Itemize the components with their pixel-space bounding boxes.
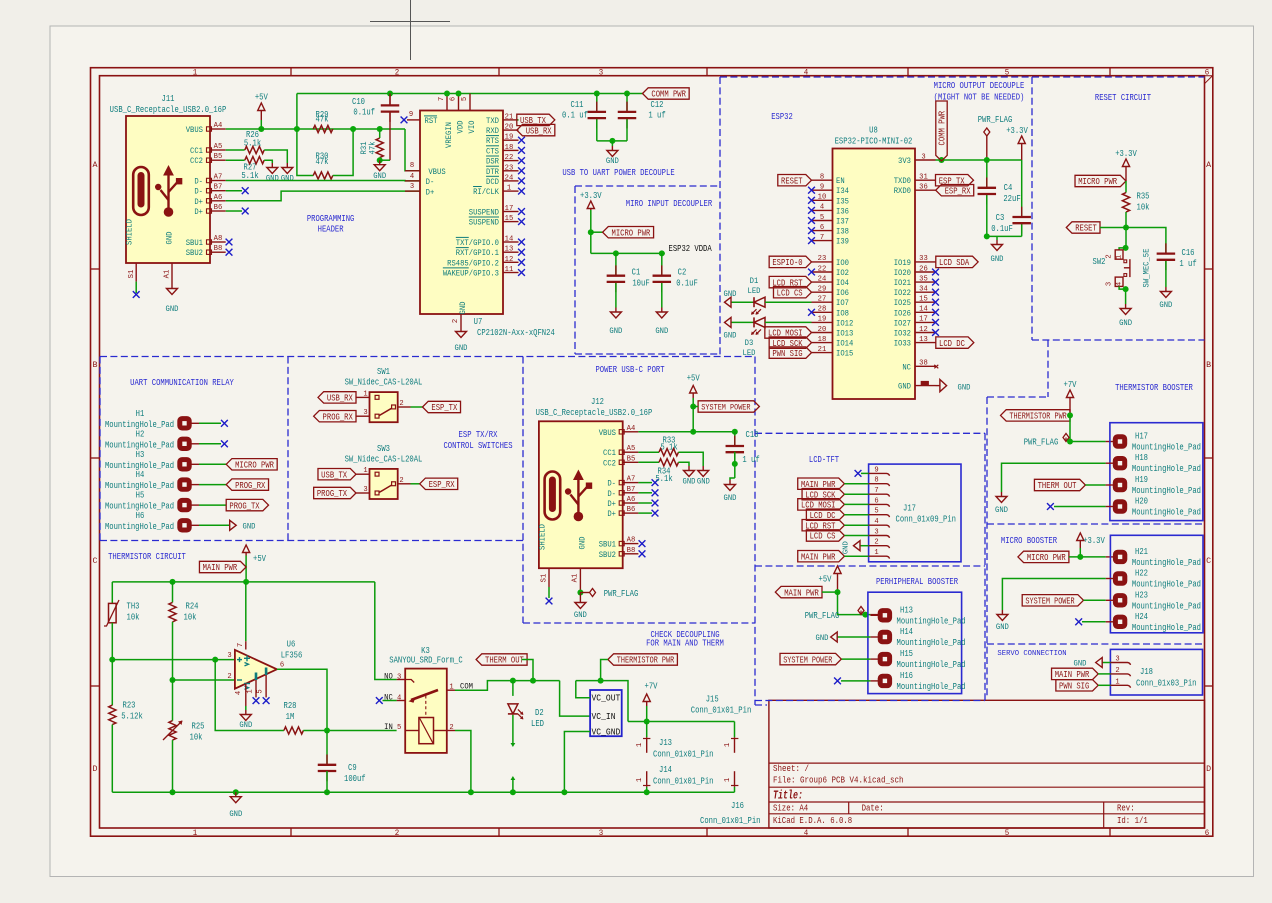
svg-text:1: 1 xyxy=(507,185,512,193)
svg-text:3V3: 3V3 xyxy=(898,156,911,166)
svg-text:USB_TX: USB_TX xyxy=(321,470,347,480)
svg-text:IO0: IO0 xyxy=(836,258,849,268)
svg-text:D-: D- xyxy=(194,187,203,197)
svg-text:IO4: IO4 xyxy=(836,278,849,288)
svg-text:36: 36 xyxy=(919,184,928,192)
svg-text:5: 5 xyxy=(397,724,402,732)
svg-text:SYSTEM POWER: SYSTEM POWER xyxy=(701,403,750,413)
svg-text:B7: B7 xyxy=(214,184,223,192)
svg-text:RXT/GPIO.1: RXT/GPIO.1 xyxy=(456,248,499,258)
svg-text:B: B xyxy=(93,360,98,370)
svg-text:R28: R28 xyxy=(284,701,297,711)
IC U7 CP2102N xyxy=(420,111,503,315)
svg-text:4: 4 xyxy=(804,828,809,838)
svg-text:21: 21 xyxy=(505,113,514,121)
svg-text:VC_IN: VC_IN xyxy=(592,712,616,722)
U8 pin RXD0 xyxy=(915,189,936,191)
svg-text:10k: 10k xyxy=(190,733,203,743)
global label ESP_RX from SW3 xyxy=(411,483,420,485)
svg-text:3: 3 xyxy=(599,68,604,78)
svg-text:H15: H15 xyxy=(900,649,913,659)
svg-text:I37: I37 xyxy=(836,217,849,227)
svg-text:24: 24 xyxy=(818,275,827,283)
svg-text:DSR: DSR xyxy=(486,157,499,167)
global label SYSTEM POWER booster xyxy=(1022,595,1083,606)
svg-text:GND: GND xyxy=(239,720,252,730)
K3 pin COM 1 xyxy=(447,689,455,691)
ground under C1 xyxy=(615,308,617,313)
svg-text:SW_Nidec_CAS-L20AL: SW_Nidec_CAS-L20AL xyxy=(345,454,423,464)
svg-text:31: 31 xyxy=(919,174,928,182)
svg-text:1: 1 xyxy=(449,684,454,692)
power +3.3V micro booster xyxy=(1079,540,1081,548)
svg-text:PWR_FLAG: PWR_FLAG xyxy=(805,611,840,621)
svg-text:7: 7 xyxy=(237,643,245,647)
connector J18 Conn_01x03_Pin xyxy=(1110,649,1202,695)
global label LCD MOSI xyxy=(765,327,812,338)
connector box H21-H24 xyxy=(1110,535,1203,633)
svg-text:GND: GND xyxy=(995,505,1008,515)
mounting hole H13 xyxy=(878,609,891,622)
K3 pin NC 4 xyxy=(397,700,406,702)
power symbol PWR_FLAG J12 xyxy=(580,592,589,594)
svg-text:GND: GND xyxy=(724,289,737,299)
global label LCD RST xyxy=(769,276,811,287)
svg-text:B8: B8 xyxy=(214,245,223,253)
svg-text:23: 23 xyxy=(818,255,827,263)
svg-text:GND: GND xyxy=(266,174,279,184)
svg-text:A6: A6 xyxy=(214,194,223,202)
svg-text:GND: GND xyxy=(281,174,294,184)
svg-text:1: 1 xyxy=(636,777,644,782)
svg-text:2: 2 xyxy=(395,828,400,838)
svg-text:MICRO PWR: MICRO PWR xyxy=(1027,553,1066,563)
svg-text:14: 14 xyxy=(919,306,928,314)
svg-text:KiCad E.D.A. 6.0.8: KiCad E.D.A. 6.0.8 xyxy=(773,816,852,826)
svg-text:IO21: IO21 xyxy=(894,278,911,288)
svg-text:CC1: CC1 xyxy=(190,146,203,156)
svg-text:R24: R24 xyxy=(186,602,199,612)
svg-text:VC_OUT: VC_OUT xyxy=(592,694,621,704)
K3 coil xyxy=(419,718,434,744)
svg-text:H18: H18 xyxy=(1135,453,1148,463)
svg-text:A4: A4 xyxy=(627,425,636,433)
svg-text:RESET: RESET xyxy=(1075,224,1097,234)
svg-text:7: 7 xyxy=(438,97,446,101)
svg-text:17: 17 xyxy=(919,316,928,324)
wire D+ A6 to U7 xyxy=(226,191,420,201)
J11 bottom pins S1 A1 xyxy=(135,263,137,282)
svg-text:A: A xyxy=(1206,160,1212,170)
svg-text:47k: 47k xyxy=(316,157,329,167)
svg-text:MAIN PWR: MAIN PWR xyxy=(784,588,819,598)
svg-text:IO13: IO13 xyxy=(836,329,853,339)
svg-text:4: 4 xyxy=(804,68,809,78)
svg-text:NC: NC xyxy=(902,362,911,372)
ground at rail xyxy=(235,792,237,797)
svg-text:RI/CLK: RI/CLK xyxy=(473,187,500,197)
U8 pin GND xyxy=(915,385,936,387)
svg-text:6: 6 xyxy=(1205,828,1210,838)
wire VBUS to top rail xyxy=(296,94,298,130)
global label MAIN PWR therm xyxy=(199,561,246,572)
svg-text:PWR_FLAG: PWR_FLAG xyxy=(1024,438,1059,448)
svg-text:IN: IN xyxy=(384,722,393,732)
svg-text:Id: 1/1: Id: 1/1 xyxy=(1117,816,1148,826)
svg-text:RTS: RTS xyxy=(486,136,499,146)
svg-text:THERM OUT: THERM OUT xyxy=(485,656,524,666)
svg-text:MountingHole_Pad: MountingHole_Pad xyxy=(105,440,174,450)
wire THERMISTOR PWR to VC_OUT xyxy=(601,660,608,681)
U8 pin I36 xyxy=(812,209,833,211)
mounting hole H24 xyxy=(1113,615,1126,628)
global label COMM PWR xyxy=(643,88,690,99)
svg-text:J13: J13 xyxy=(659,738,672,748)
global label MICRO PWR reset xyxy=(1075,175,1126,186)
svg-text:GND: GND xyxy=(455,343,468,353)
ground left of H18 xyxy=(1001,492,1003,497)
svg-text:H4: H4 xyxy=(136,470,145,480)
svg-text:PROGRAMMING: PROGRAMMING xyxy=(307,213,355,224)
svg-text:LCD CS: LCD CS xyxy=(777,288,803,298)
svg-text:GND: GND xyxy=(724,493,737,503)
mounting hole H15 xyxy=(878,652,891,665)
svg-text:A4: A4 xyxy=(214,122,223,130)
svg-text:USB_C_Receptacle_USB2.0_16P: USB_C_Receptacle_USB2.0_16P xyxy=(110,105,227,115)
svg-text:5: 5 xyxy=(1005,828,1010,838)
svg-text:TH3: TH3 xyxy=(127,602,140,612)
svg-text:D-: D- xyxy=(607,489,616,499)
wire +7V net to J15 xyxy=(628,721,735,723)
svg-text:SBU1: SBU1 xyxy=(186,238,203,248)
svg-text:C4: C4 xyxy=(1004,183,1013,193)
svg-text:CC2: CC2 xyxy=(190,156,203,166)
power +5V therm circuit xyxy=(245,552,247,556)
svg-text:H20: H20 xyxy=(1135,497,1148,507)
svg-text:MountingHole_Pad: MountingHole_Pad xyxy=(1132,580,1201,590)
svg-text:C3: C3 xyxy=(996,213,1005,223)
svg-text:1: 1 xyxy=(193,828,198,838)
svg-text:D-: D- xyxy=(194,177,203,187)
U8 pin I38 xyxy=(812,230,833,232)
svg-text:RESET CIRCUIT: RESET CIRCUIT xyxy=(1095,92,1151,103)
svg-text:D+: D+ xyxy=(607,509,616,519)
svg-text:TXD: TXD xyxy=(486,116,499,126)
U8 pin IO32 xyxy=(915,332,936,334)
svg-text:D3: D3 xyxy=(745,338,754,348)
svg-text:1: 1 xyxy=(724,777,732,782)
ground under C13 xyxy=(729,480,731,485)
ground below R31 xyxy=(379,160,381,165)
power symbol PWR_FLAG therm xyxy=(1063,434,1069,442)
svg-text:CTS: CTS xyxy=(486,146,499,156)
connector box H17-H20 xyxy=(1110,423,1203,521)
wire D- A7 to U7 xyxy=(226,180,420,182)
svg-text:Conn_01x03_Pin: Conn_01x03_Pin xyxy=(1136,679,1196,689)
svg-text:2: 2 xyxy=(1105,254,1113,258)
U7 pin WAKEUP/GPIO.3 xyxy=(503,272,519,274)
wire VC_GND to rail xyxy=(564,732,590,793)
svg-text:15: 15 xyxy=(505,215,514,223)
svg-text:C9: C9 xyxy=(348,763,357,773)
wire minus input xyxy=(173,679,235,681)
svg-text:GND: GND xyxy=(996,622,1009,632)
svg-text:J15: J15 xyxy=(706,695,719,705)
global label MAIN PWR periph xyxy=(775,586,822,597)
svg-text:B5: B5 xyxy=(627,455,636,463)
svg-text:100uf: 100uf xyxy=(344,774,366,784)
global label LCD SCK xyxy=(769,337,811,348)
U8 pin IO20 xyxy=(915,271,936,273)
svg-text:Sheet: /: Sheet: / xyxy=(773,764,809,774)
svg-text:19: 19 xyxy=(818,316,827,324)
svg-text:27: 27 xyxy=(818,296,827,304)
svg-text:MICRO PWR: MICRO PWR xyxy=(235,461,274,471)
svg-text:+5V: +5V xyxy=(255,93,268,103)
svg-text:0.1uF: 0.1uF xyxy=(676,279,698,289)
svg-text:IO12: IO12 xyxy=(836,318,853,328)
svg-text:D+: D+ xyxy=(607,499,616,509)
svg-text:SW2: SW2 xyxy=(1093,257,1106,267)
svg-text:PWR_FLAG: PWR_FLAG xyxy=(604,589,639,599)
svg-text:IO14: IO14 xyxy=(836,339,853,349)
svg-text:5.1k: 5.1k xyxy=(655,474,672,484)
wire COM net xyxy=(455,681,560,691)
U8 pin IO25 xyxy=(915,301,936,303)
U7 bottom pin GND xyxy=(460,314,462,327)
svg-text:A1: A1 xyxy=(572,573,580,582)
ground under C2 xyxy=(661,308,663,313)
power +3.3V reset xyxy=(1125,166,1127,181)
U8 pin IO2 xyxy=(812,271,833,273)
U8 pin IO21 xyxy=(915,281,936,283)
svg-text:MountingHole_Pad: MountingHole_Pad xyxy=(1132,443,1201,453)
svg-text:USB_RX: USB_RX xyxy=(526,126,552,136)
svg-text:D: D xyxy=(1206,764,1211,774)
U8 pin IO0 xyxy=(812,261,833,263)
svg-text:USB TO UART POWER DECOUPLE: USB TO UART POWER DECOUPLE xyxy=(562,167,675,178)
global label LCD DC xyxy=(936,337,974,348)
svg-text:38: 38 xyxy=(919,360,928,368)
svg-text:1: 1 xyxy=(363,467,368,475)
svg-text:H6: H6 xyxy=(136,511,145,521)
U8 pin 3V3 xyxy=(915,159,936,161)
U7 top pins 7 6 5 xyxy=(446,94,448,111)
svg-text:24: 24 xyxy=(505,174,514,182)
svg-text:SW_MEC_5E: SW_MEC_5E xyxy=(1142,249,1152,288)
svg-text:S1: S1 xyxy=(541,573,549,582)
svg-text:A6: A6 xyxy=(627,496,636,504)
svg-text:GND: GND xyxy=(609,326,622,336)
svg-text:1: 1 xyxy=(247,689,255,694)
U8 pin IO4 xyxy=(812,281,833,283)
svg-text:H19: H19 xyxy=(1135,475,1148,485)
mounting hole H18 xyxy=(1113,457,1126,470)
svg-text:C13: C13 xyxy=(746,430,759,440)
K3 armature xyxy=(411,690,438,700)
svg-text:C10: C10 xyxy=(352,97,365,107)
svg-text:Rev:: Rev: xyxy=(1117,804,1135,814)
svg-text:GND: GND xyxy=(958,383,971,393)
svg-text:34: 34 xyxy=(919,286,928,294)
svg-text:I34: I34 xyxy=(836,186,849,196)
svg-text:D-: D- xyxy=(607,479,616,489)
global label USB_RX xyxy=(517,124,555,135)
svg-text:23: 23 xyxy=(505,164,514,172)
svg-text:B8: B8 xyxy=(627,547,636,555)
svg-text:SW1: SW1 xyxy=(377,367,390,377)
svg-text:B6: B6 xyxy=(627,506,636,514)
svg-text:IO26: IO26 xyxy=(894,308,911,318)
svg-text:PWN SIG: PWN SIG xyxy=(772,349,802,359)
U7 pin RI/CLK xyxy=(503,190,519,192)
svg-text:WAKEUP/GPIO.3: WAKEUP/GPIO.3 xyxy=(443,269,499,279)
svg-text:B: B xyxy=(1206,360,1211,370)
no-connect H20 xyxy=(1054,506,1106,508)
svg-text:MIRO INPUT DECOUPLER: MIRO INPUT DECOUPLER xyxy=(626,198,713,209)
svg-text:SERVO CONNECTION: SERVO CONNECTION xyxy=(997,650,1066,658)
svg-text:LCD SDA: LCD SDA xyxy=(939,258,970,268)
svg-text:Size: A4: Size: A4 xyxy=(773,804,808,814)
svg-text:ESP_RX: ESP_RX xyxy=(945,186,971,196)
svg-text:IO32: IO32 xyxy=(894,329,911,339)
svg-text:LED: LED xyxy=(531,719,544,729)
svg-text:I39: I39 xyxy=(836,237,849,247)
U8 pin IO22 xyxy=(915,291,936,293)
svg-text:3: 3 xyxy=(1105,282,1113,286)
mounting hole H19 xyxy=(1113,478,1126,491)
mounting hole H16 xyxy=(878,674,891,687)
svg-text:MountingHole_Pad: MountingHole_Pad xyxy=(105,522,174,532)
U7 pin SUSPEND xyxy=(503,221,519,223)
svg-text:PWN SIG: PWN SIG xyxy=(1059,682,1089,692)
svg-text:18: 18 xyxy=(818,336,827,344)
svg-text:1: 1 xyxy=(363,390,368,398)
svg-text:5: 5 xyxy=(1005,68,1010,78)
wire caps to gnd xyxy=(597,140,627,142)
svg-text:ESP32-PICO-MINI-02: ESP32-PICO-MINI-02 xyxy=(835,137,913,147)
svg-text:IO19: IO19 xyxy=(894,258,911,268)
svg-text:USB_C_Receptacle_USB2.0_16P: USB_C_Receptacle_USB2.0_16P xyxy=(536,408,653,418)
svg-text:GND: GND xyxy=(243,521,256,531)
svg-text:3: 3 xyxy=(363,486,368,494)
svg-text:MICRO OUTPUT DECOUPLE: MICRO OUTPUT DECOUPLE xyxy=(934,80,1025,91)
ground at J11 A1 xyxy=(171,284,173,289)
svg-text:VBUS: VBUS xyxy=(599,428,616,438)
svg-text:CC2: CC2 xyxy=(603,458,616,468)
svg-text:J14: J14 xyxy=(659,765,672,775)
svg-text:D+: D+ xyxy=(194,207,203,217)
vertical global label COMM PWR xyxy=(939,157,945,163)
svg-text:MountingHole_Pad: MountingHole_Pad xyxy=(1132,486,1201,496)
svg-text:LED: LED xyxy=(748,286,761,296)
svg-text:3: 3 xyxy=(921,153,926,161)
no-connect J12 D-/D+/SBU xyxy=(638,492,652,494)
U8 pin TXD0 xyxy=(915,179,936,181)
svg-text:15: 15 xyxy=(919,296,928,304)
svg-text:H21: H21 xyxy=(1135,547,1148,557)
svg-text:12: 12 xyxy=(505,256,514,264)
svg-text:U7: U7 xyxy=(474,317,483,327)
svg-text:LCD DC: LCD DC xyxy=(939,339,965,349)
svg-text:+3.3V: +3.3V xyxy=(1006,126,1028,136)
U8 pin IO15 xyxy=(812,352,833,354)
U7 pin DSR xyxy=(503,160,519,162)
svg-text:J18: J18 xyxy=(1140,667,1153,677)
svg-text:DTR: DTR xyxy=(486,167,499,177)
wire plus input xyxy=(112,659,235,661)
grid origin crosshair xyxy=(410,0,412,60)
svg-text:PROG_RX: PROG_RX xyxy=(235,481,266,491)
global label PROG_RX to SW1 xyxy=(314,411,356,422)
power +7V therm xyxy=(1069,397,1071,415)
U8 pin IO13 xyxy=(812,332,833,334)
global label ESPIO-0 xyxy=(769,256,811,267)
svg-text:10k: 10k xyxy=(1137,203,1150,213)
wire VBUS down to U7 xyxy=(405,129,420,171)
svg-text:4: 4 xyxy=(410,173,415,181)
svg-text:USB_RX: USB_RX xyxy=(327,394,353,404)
svg-text:GND: GND xyxy=(574,610,587,620)
svg-text:3: 3 xyxy=(227,652,232,660)
svg-text:Conn_01x01_Pin: Conn_01x01_Pin xyxy=(700,816,760,826)
svg-text:29: 29 xyxy=(818,286,827,294)
svg-text:PERHIPHERAL BOOSTER: PERHIPHERAL BOOSTER xyxy=(876,576,958,587)
svg-text:9: 9 xyxy=(409,111,413,119)
svg-text:H2: H2 xyxy=(136,429,145,439)
svg-text:SUSPEND: SUSPEND xyxy=(469,218,499,228)
svg-text:20: 20 xyxy=(505,124,514,132)
svg-text:5.1k: 5.1k xyxy=(241,171,258,181)
svg-text:D+: D+ xyxy=(426,187,435,197)
svg-text:2: 2 xyxy=(399,477,403,485)
svg-text:20: 20 xyxy=(818,326,827,334)
svg-text:D-: D- xyxy=(426,177,435,187)
svg-text:PROG_RX: PROG_RX xyxy=(323,412,354,422)
svg-text:3: 3 xyxy=(410,183,415,191)
svg-text:4: 4 xyxy=(1116,282,1124,286)
U7 pin RS485/GPIO.2 xyxy=(503,261,519,263)
svg-text:IO25: IO25 xyxy=(894,298,911,308)
no-connect H24 xyxy=(1082,621,1106,623)
U8 pin IO27 xyxy=(915,321,936,323)
global label USB_TX to SW3 xyxy=(318,469,356,480)
svg-text:4: 4 xyxy=(397,694,402,702)
svg-text:0.1uf: 0.1uf xyxy=(353,108,375,118)
global label THERMISTOR PWR xyxy=(1001,410,1071,421)
no-connect B7 xyxy=(226,190,242,192)
svg-text:C: C xyxy=(93,556,98,566)
svg-text:I36: I36 xyxy=(836,206,849,216)
svg-text:Title:: Title: xyxy=(773,790,803,803)
U7 pin DTR xyxy=(503,170,519,172)
svg-text:MountingHole_Pad: MountingHole_Pad xyxy=(1132,558,1201,568)
svg-text:SYSTEM POWER: SYSTEM POWER xyxy=(1025,597,1075,607)
U7 pin RXT/GPIO.1 xyxy=(503,251,519,253)
bottom gnd rail xyxy=(112,791,734,793)
svg-text:THERMISTOR CIRCUIT: THERMISTOR CIRCUIT xyxy=(108,551,186,562)
svg-text:A1: A1 xyxy=(164,269,172,278)
U8 pin IO19 xyxy=(915,261,936,263)
svg-text:Conn_01x09_Pin: Conn_01x09_Pin xyxy=(896,514,956,524)
svg-text:+7V: +7V xyxy=(645,682,658,692)
svg-text:RXD: RXD xyxy=(486,126,499,136)
svg-text:UART COMMUNICATION RELAY: UART COMMUNICATION RELAY xyxy=(130,377,234,388)
svg-text:VC_GND: VC_GND xyxy=(592,728,621,738)
svg-text:H23: H23 xyxy=(1135,590,1148,600)
svg-text:COMM PWR: COMM PWR xyxy=(651,90,686,100)
power +5V at VBUS xyxy=(260,110,262,120)
